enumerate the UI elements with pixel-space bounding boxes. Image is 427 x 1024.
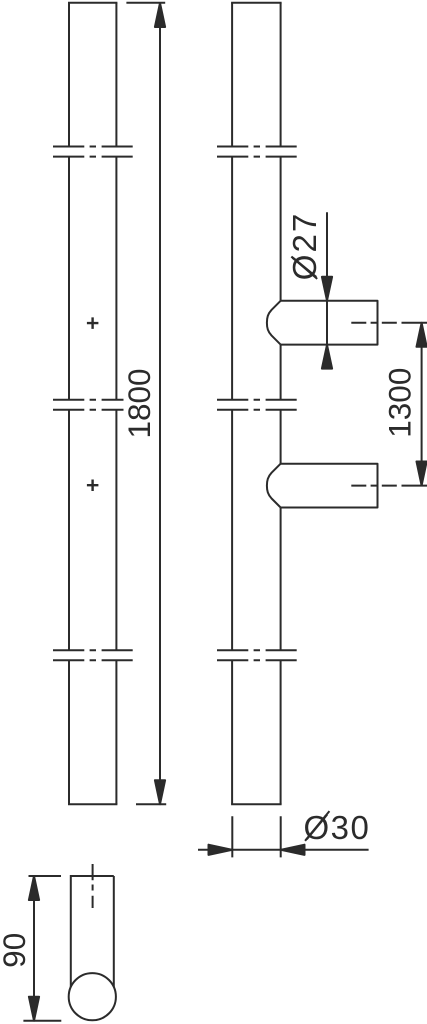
- svg-text:1300: 1300: [382, 368, 418, 438]
- svg-text:1800: 1800: [121, 368, 157, 438]
- svg-text:Ø27: Ø27: [286, 212, 323, 280]
- svg-text:Ø30: Ø30: [304, 809, 371, 846]
- svg-text:90: 90: [0, 933, 32, 968]
